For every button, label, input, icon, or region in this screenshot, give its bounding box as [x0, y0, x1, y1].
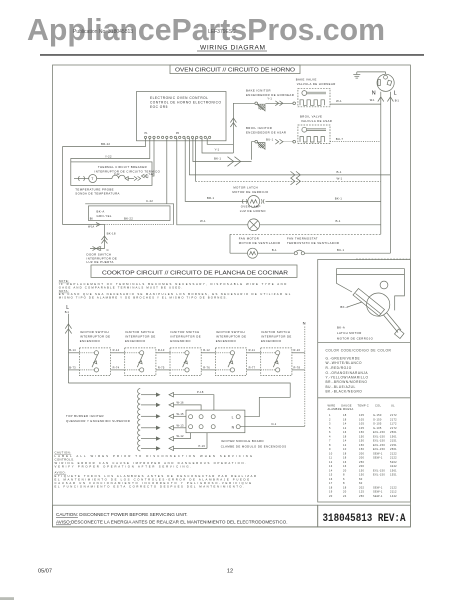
svg-text:2122: 2122 [390, 485, 397, 489]
svg-text:IGNITER MODULE BOARD: IGNITER MODULE BOARD [221, 439, 264, 443]
svg-text:200: 200 [359, 456, 364, 460]
wire bus B-1 to L [189, 138, 390, 178]
svg-text:B-14: B-14 [69, 348, 76, 352]
svg-text:MOTOR DE CERROJO: MOTOR DE CERROJO [337, 337, 374, 341]
svg-text:18: 18 [343, 434, 347, 438]
svg-text:1561: 1561 [390, 468, 397, 472]
panel divider [318, 342, 411, 344]
svg-text:W-1: W-1 [370, 98, 375, 102]
svg-text:B-1: B-1 [337, 170, 342, 174]
svg-text:TOP BURNER IGNITER: TOP BURNER IGNITER [66, 414, 104, 418]
svg-text:5: 5 [329, 426, 331, 430]
svg-text:INTERRUPTOR DE: INTERRUPTOR DE [216, 335, 247, 339]
color code legend [326, 349, 392, 394]
bake valve V1 [298, 88, 330, 107]
wire table rows [329, 413, 397, 498]
svg-text:BU-1: BU-1 [266, 138, 274, 142]
ignitor switch S4 [170, 330, 201, 376]
svg-text:150: 150 [359, 430, 364, 434]
svg-text:SEW-1: SEW-1 [373, 485, 383, 489]
svg-text:ENCENDEDOR DE ASAR: ENCENDEDOR DE ASAR [246, 130, 286, 134]
svg-text:250: 250 [359, 460, 364, 464]
svg-text:SEW-1: SEW-1 [373, 490, 383, 494]
svg-text:W-1A: W-1A [88, 226, 95, 229]
wire BU-7 broil valve to N dotted [330, 137, 381, 142]
igniter gap row 2 [141, 400, 201, 410]
wire R-13 [156, 348, 170, 370]
svg-text:LUZ DE HORNO: LUZ DE HORNO [240, 209, 267, 213]
svg-text:INTERRUPTOR DE: INTERRUPTOR DE [261, 335, 292, 339]
caution text block [55, 450, 257, 488]
svg-text:R.-RED/ROJO: R.-RED/ROJO [326, 366, 352, 370]
svg-text:Publication No: 318045813: Publication No: 318045813 [73, 29, 133, 35]
wire R-12 [201, 348, 215, 370]
svg-text:EXL-150: EXL-150 [373, 443, 385, 447]
svg-text:05/07: 05/07 [38, 569, 52, 575]
svg-text:W-13: W-13 [177, 423, 185, 427]
svg-text:COOKTOP CIRCUIT // CIRCUITO DE: COOKTOP CIRCUIT // CIRCUITO DE PLANCHA D… [102, 270, 288, 276]
svg-text:18: 18 [329, 485, 333, 489]
svg-text:150: 150 [359, 439, 364, 443]
wire Y-1 riser [230, 103, 255, 153]
caution bottom box [53, 505, 318, 527]
svg-text:20: 20 [343, 468, 347, 472]
svg-text:2122: 2122 [390, 456, 397, 460]
svg-text:1551: 1551 [390, 473, 397, 477]
svg-text:12: 12 [343, 426, 347, 430]
ground wire box BK-A GRN-YEL [89, 206, 171, 221]
svg-text:BK-A: BK-A [337, 325, 345, 329]
svg-text:11: 11 [329, 456, 333, 460]
svg-text:IGNITOR SWITCH: IGNITOR SWITCH [170, 330, 199, 334]
svg-text:1561: 1561 [390, 434, 397, 438]
svg-text:G.-GREEN/VERDE: G.-GREEN/VERDE [326, 356, 361, 360]
part number box 318045813 REV:A [318, 505, 411, 527]
wire Y-1 from EOC [202, 138, 233, 153]
svg-text:ENCENDIDO: ENCENDIDO [80, 339, 101, 343]
svg-text:BK: BK [90, 218, 94, 220]
svg-text:L: L [394, 91, 397, 97]
ignitor switch S2 [79, 330, 110, 376]
svg-text:W-1: W-1 [336, 99, 342, 103]
wire to door switch junction [63, 223, 174, 229]
svg-text:Y.-YELLOW/AMARILLO: Y.-YELLOW/AMARILLO [326, 375, 369, 379]
svg-text:14: 14 [343, 439, 347, 443]
svg-text:19: 19 [329, 490, 333, 494]
svg-text:BK-A: BK-A [340, 305, 348, 309]
svg-text:150: 150 [359, 468, 364, 472]
svg-text:10: 10 [329, 451, 333, 455]
svg-text:1: 1 [329, 413, 331, 417]
svg-text:EXL-150: EXL-150 [373, 473, 385, 477]
note text [59, 279, 291, 300]
svg-text:BAKE IGNITOR: BAKE IGNITOR [246, 89, 271, 93]
ignitor switch S3 [125, 330, 156, 376]
svg-text:R-75: R-75 [158, 365, 165, 369]
svg-text:202: 202 [359, 485, 364, 489]
svg-text:R-12: R-12 [203, 348, 210, 352]
node N line [303, 321, 306, 427]
fan thermostat TH1 [294, 248, 390, 255]
svg-text:R-11: R-11 [249, 348, 256, 352]
svg-text:W-1: W-1 [337, 176, 343, 180]
svg-text:2112: 2112 [390, 490, 397, 494]
svg-text:BK-22: BK-22 [124, 216, 133, 220]
svg-text:R-14: R-14 [113, 348, 120, 352]
svg-text:105: 105 [359, 417, 364, 421]
svg-text:2172: 2172 [390, 426, 397, 430]
cooktop title box [91, 265, 297, 277]
svg-text:BR-1: BR-1 [207, 196, 215, 200]
svg-text:SEW-1: SEW-1 [373, 451, 383, 455]
svg-text:LUZ DE PUERTA: LUZ DE PUERTA [87, 260, 114, 264]
svg-text:Y-1: Y-1 [267, 96, 272, 100]
svg-text:4242: 4242 [390, 464, 397, 468]
wire with connector chevrons to broil valve [275, 139, 295, 144]
svg-text:VALVULA DE HORNEAR: VALVULA DE HORNEAR [297, 82, 336, 86]
svg-text:L: L [232, 415, 234, 419]
ignitor switch S6 [261, 330, 292, 376]
wire BK-22 [124, 216, 133, 220]
svg-text:CLAMBE DE MODULO DE ENCENDIDOS: CLAMBE DE MODULO DE ENCENDIDOS [221, 444, 287, 448]
svg-text:P-18: P-18 [197, 390, 204, 394]
svg-text:18: 18 [343, 451, 347, 455]
svg-text:AVISO:DESCONECTE LA ENERGIA AN: AVISO:DESCONECTE LA ENERGIA ANTES DE REA… [56, 520, 288, 525]
svg-text:R-13: R-13 [158, 348, 165, 352]
svg-text:14: 14 [343, 422, 347, 426]
svg-text:Y-22: Y-22 [105, 155, 112, 159]
svg-text:TERMOSTATO DE VENTILADOR: TERMOSTATO DE VENTILADOR [287, 241, 339, 245]
svg-text:ENCENDIDO: ENCENDIDO [261, 339, 282, 343]
svg-text:5202: 5202 [390, 460, 397, 464]
svg-text:1172: 1172 [390, 422, 397, 426]
svg-text:10: 10 [343, 447, 347, 451]
motor latch M1 [185, 138, 381, 207]
svg-text:2151: 2151 [390, 439, 397, 443]
wire last switch to N [292, 348, 305, 370]
svg-text:BROIL VALVE: BROIL VALVE [300, 115, 322, 119]
svg-text:R-74: R-74 [113, 365, 120, 369]
wire igniter bus [68, 383, 290, 417]
outer frame [53, 65, 411, 527]
svg-text:BK-18: BK-18 [107, 231, 116, 235]
svg-text:INTERRUPTOR DE: INTERRUPTOR DE [80, 335, 111, 339]
svg-text:W-16: W-16 [177, 400, 185, 404]
svg-text:IGNITOR SWITCH: IGNITOR SWITCH [261, 330, 290, 334]
svg-text:1442: 1442 [390, 494, 397, 498]
node L feed [65, 305, 72, 383]
svg-text:C-22: C-22 [146, 199, 153, 203]
svg-text:IGNITOR SWITCH: IGNITOR SWITCH [80, 330, 109, 334]
svg-text:18: 18 [343, 485, 347, 489]
svg-text:125: 125 [359, 490, 364, 494]
wire BK-18 vertical with connectors [101, 225, 115, 248]
svg-text:60: 60 [359, 477, 363, 481]
svg-text:COLOR CODE/CODIGO DE COLOR: COLOR CODE/CODIGO DE COLOR [326, 349, 392, 353]
svg-text:BU.-BLUE/AZUL: BU.-BLUE/AZUL [326, 385, 356, 389]
svg-text:12: 12 [329, 460, 333, 464]
svg-text:7: 7 [329, 439, 331, 443]
wire Y-22 EOC drop with chevrons [141, 138, 154, 178]
svg-text:20: 20 [343, 490, 347, 494]
svg-text:12: 12 [227, 569, 233, 575]
svg-text:G-150: G-150 [373, 413, 382, 417]
svg-text:ENCENDIDO: ENCENDIDO [125, 339, 146, 343]
svg-text:OVEN CIRCUIT // CIRCUITO DE HO: OVEN CIRCUIT // CIRCUITO DE HORNO [175, 68, 296, 74]
svg-text:EXL-150: EXL-150 [373, 439, 385, 443]
svg-text:14: 14 [329, 468, 333, 472]
svg-text:2172: 2172 [390, 413, 397, 417]
svg-text:EXL-150: EXL-150 [373, 430, 385, 434]
svg-text:IGNITOR SWITCH: IGNITOR SWITCH [125, 330, 154, 334]
svg-text:INTERRUPTOR DE: INTERRUPTOR DE [170, 335, 201, 339]
svg-text:WIRING DIAGRAM: WIRING DIAGRAM [200, 44, 265, 51]
svg-text:6: 6 [343, 477, 345, 481]
svg-text:G-150: G-150 [373, 417, 382, 421]
svg-text:20: 20 [329, 494, 333, 498]
svg-text:MOTOR DE VENTILADOR: MOTOR DE VENTILADOR [239, 241, 281, 245]
svg-text:150: 150 [359, 473, 364, 477]
wire C-22 [85, 138, 173, 224]
svg-text:IGNITOR SWITCH: IGNITOR SWITCH [216, 330, 245, 334]
svg-text:2: 2 [329, 417, 331, 421]
svg-text:6: 6 [329, 430, 331, 434]
svg-text:12: 12 [343, 443, 347, 447]
power plug P1 [372, 72, 397, 97]
svg-text:13: 13 [329, 464, 333, 468]
latch motor assembly drawing [337, 269, 405, 339]
svg-text:SEW-1: SEW-1 [373, 456, 383, 460]
wire BK-1 from EOC with large chevrons [193, 138, 252, 166]
svg-text:2122: 2122 [390, 451, 397, 455]
svg-text:R-76: R-76 [203, 365, 210, 369]
svg-text:N: N [372, 91, 376, 97]
svg-text:BK.-BLACK/NEGRO: BK.-BLACK/NEGRO [326, 390, 363, 394]
svg-text:VERIFY PROPER OPERATION AFTER: VERIFY PROPER OPERATION AFTER SERVICING. [55, 464, 192, 468]
panel divider 2 [318, 397, 411, 399]
top burner igniter column [138, 389, 141, 451]
svg-text:B-73: B-73 [69, 365, 76, 369]
svg-text:15: 15 [329, 473, 333, 477]
svg-text:200: 200 [359, 464, 364, 468]
svg-text:60: 60 [359, 481, 363, 485]
oven lamp DS1 [177, 138, 381, 231]
svg-text:8: 8 [343, 481, 345, 485]
header rule [40, 54, 424, 56]
svg-text:MOTOR DE CERROJO: MOTOR DE CERROJO [232, 190, 269, 194]
svg-text:150: 150 [359, 443, 364, 447]
svg-text:SEW-1: SEW-1 [373, 494, 383, 498]
svg-text:LEF379ESC: LEF379ESC [208, 29, 236, 35]
bake ignitor E1 [255, 96, 272, 110]
svg-text:250: 250 [359, 494, 364, 498]
svg-text:COL: COL [375, 403, 381, 407]
wire table header [328, 403, 396, 411]
svg-text:EXL-150: EXL-150 [373, 434, 385, 438]
svg-text:B-1: B-1 [395, 99, 400, 103]
svg-text:ENCENDIDO: ENCENDIDO [170, 339, 191, 343]
svg-text:2561: 2561 [390, 447, 397, 451]
svg-text:B-1: B-1 [65, 310, 70, 314]
svg-text:B-1: B-1 [272, 248, 277, 252]
svg-text:INTERRUPTOR DE: INTERRUPTOR DE [125, 335, 156, 339]
igniter module board U2 [186, 410, 245, 433]
wire N-1 module to N line [240, 422, 305, 427]
igniter gap row 6 [141, 433, 207, 451]
igniter gap row 4 [141, 423, 186, 430]
svg-text:W.-WHITE/BLANCO: W.-WHITE/BLANCO [326, 361, 363, 365]
igniter gap row 5 [141, 433, 191, 441]
svg-text:200: 200 [359, 451, 364, 455]
svg-text:ENCENDIDO: ENCENDIDO [216, 339, 237, 343]
svg-text:16: 16 [343, 460, 347, 464]
svg-text:VALVULA DE ASAR: VALVULA DE ASAR [301, 119, 332, 123]
scan edge mark [0, 597, 14, 600]
svg-text:UL: UL [391, 403, 395, 407]
svg-text:BU-1: BU-1 [337, 248, 345, 252]
door switch S1 [87, 246, 118, 264]
svg-text:150: 150 [359, 434, 364, 438]
svg-text:W-12: W-12 [177, 434, 185, 438]
svg-text:W-1: W-1 [200, 219, 206, 223]
svg-text:150: 150 [359, 447, 364, 451]
svg-text:BK-A: BK-A [97, 209, 105, 213]
fan loop wire [230, 234, 381, 253]
svg-text:R-10: R-10 [294, 348, 301, 352]
broil ignitor E2 [255, 138, 274, 150]
svg-text:2172: 2172 [390, 417, 397, 421]
svg-text:QUEMADOR Y ENCENDIDO SUPERIOR: QUEMADOR Y ENCENDIDO SUPERIOR [66, 419, 130, 423]
svg-text:BK-1: BK-1 [335, 196, 342, 200]
wire bus W-1 to N dashed [195, 138, 380, 185]
svg-text:TEMP C: TEMP C [358, 403, 369, 407]
svg-text:3: 3 [329, 422, 331, 426]
svg-text:GAGE AND COMPARABLE TERMINALS: GAGE AND COMPARABLE TERMINALS MUST BE US… [59, 285, 183, 289]
wire W-1 bake valve to N [330, 99, 381, 104]
svg-text:SONDA DE TEMPERATURA: SONDA DE TEMPERATURA [75, 192, 120, 196]
svg-text:N: N [303, 321, 306, 326]
ground [353, 72, 385, 78]
svg-text:ELECTRONIC OVEN CONTROL: ELECTRONIC OVEN CONTROL [150, 96, 208, 100]
svg-text:B-1: B-1 [336, 219, 341, 223]
wire L to first switch [68, 348, 79, 370]
right panel frame [318, 260, 411, 503]
svg-text:Y-1: Y-1 [215, 147, 220, 151]
svg-text:9: 9 [329, 447, 331, 451]
svg-text:Y-22: Y-22 [149, 173, 155, 176]
svg-text:105: 105 [359, 426, 364, 430]
igniter gap row 3 [141, 412, 186, 419]
wire dashed stub to frame [356, 258, 410, 260]
svg-text:BK-1: BK-1 [214, 156, 221, 160]
op-amp U1 electronic oven control EOC [137, 92, 227, 141]
broil valve V2 [298, 125, 330, 144]
svg-text:4: 4 [329, 434, 331, 438]
svg-text:WIRE: WIRE [328, 403, 336, 407]
svg-text:BR-22: BR-22 [101, 142, 110, 146]
svg-text:105: 105 [359, 413, 364, 417]
svg-text:18: 18 [343, 413, 347, 417]
svg-text:GAUGE: GAUGE [341, 403, 352, 407]
svg-text:EXL-150: EXL-150 [373, 468, 385, 472]
svg-text:ALAMBRE MUESA: ALAMBRE MUESA [328, 407, 354, 411]
svg-text:8: 8 [343, 473, 345, 477]
svg-text:BAKE VALVE: BAKE VALVE [296, 78, 317, 82]
svg-text:EOC OR5: EOC OR5 [150, 105, 168, 109]
svg-text:8: 8 [329, 443, 331, 447]
svg-text:18: 18 [343, 417, 347, 421]
wire Y-22 to thermal breaker [71, 138, 150, 162]
svg-text:17: 17 [329, 481, 333, 485]
svg-text:W-15: W-15 [177, 412, 185, 416]
igniter gap row 1 [141, 390, 214, 410]
wire with connector chevrons to bake valve [265, 101, 295, 106]
svg-text:BROIL IGNITOR: BROIL IGNITOR [246, 126, 272, 130]
svg-text:MISMO TIPO DE ALAMBRE Y DE BRO: MISMO TIPO DE ALAMBRE Y DE BROCHES Y EL … [59, 295, 228, 299]
svg-text:R-77: R-77 [249, 365, 256, 369]
svg-text:16: 16 [343, 464, 347, 468]
svg-text:O.-ORANGE/NARANJA: O.-ORANGE/NARANJA [326, 371, 369, 375]
wire R-11 [247, 348, 261, 370]
wire BK-1 riser to broil ignitor [252, 142, 255, 160]
svg-text:BR.-BROWN/MORENO: BR.-BROWN/MORENO [326, 380, 368, 384]
svg-text:G-105: G-105 [373, 422, 382, 426]
svg-text:R-78: R-78 [294, 365, 301, 369]
svg-text:BU-7: BU-7 [336, 137, 344, 141]
svg-text:OVEN LAMP: OVEN LAMP [241, 204, 261, 208]
wire BR-22 from EOC to left bus [63, 138, 146, 225]
svg-text:GRN-YEL: GRN-YEL [97, 214, 112, 218]
thermal circuit breaker CB1 [71, 162, 161, 186]
svg-text:318045813 REV:A: 318045813 REV:A [323, 513, 406, 525]
fan motor M2 [248, 248, 294, 258]
svg-text:EXL-150: EXL-150 [373, 447, 385, 451]
svg-text:N-1: N-1 [272, 422, 277, 426]
svg-text:LATCH MOTOR: LATCH MOTOR [337, 331, 362, 335]
svg-text:G-105: G-105 [373, 426, 382, 430]
svg-text:24: 24 [343, 494, 347, 498]
svg-text:16: 16 [343, 430, 347, 434]
svg-text:CAUTION: DISCONNECT POWER BEFO: CAUTION: DISCONNECT POWER BEFORE SERVICI… [56, 512, 188, 517]
wire from last terminal [207, 138, 233, 144]
svg-text:2151: 2151 [390, 443, 397, 447]
wire N drop [370, 92, 384, 235]
wire R-14 [111, 348, 125, 370]
svg-text:2561: 2561 [390, 430, 397, 434]
svg-text:16: 16 [329, 477, 333, 481]
oven circuit title box [170, 65, 300, 74]
ignitor switch S5 [215, 330, 246, 376]
wire L drop [387, 92, 399, 253]
svg-text:T: T [91, 177, 93, 181]
svg-text:P-16: P-16 [199, 444, 206, 448]
svg-text:CONTROL DE HORNO ELECTRONICO: CONTROL DE HORNO ELECTRONICO [150, 101, 221, 105]
svg-text:18: 18 [343, 456, 347, 460]
svg-text:105: 105 [359, 422, 364, 426]
